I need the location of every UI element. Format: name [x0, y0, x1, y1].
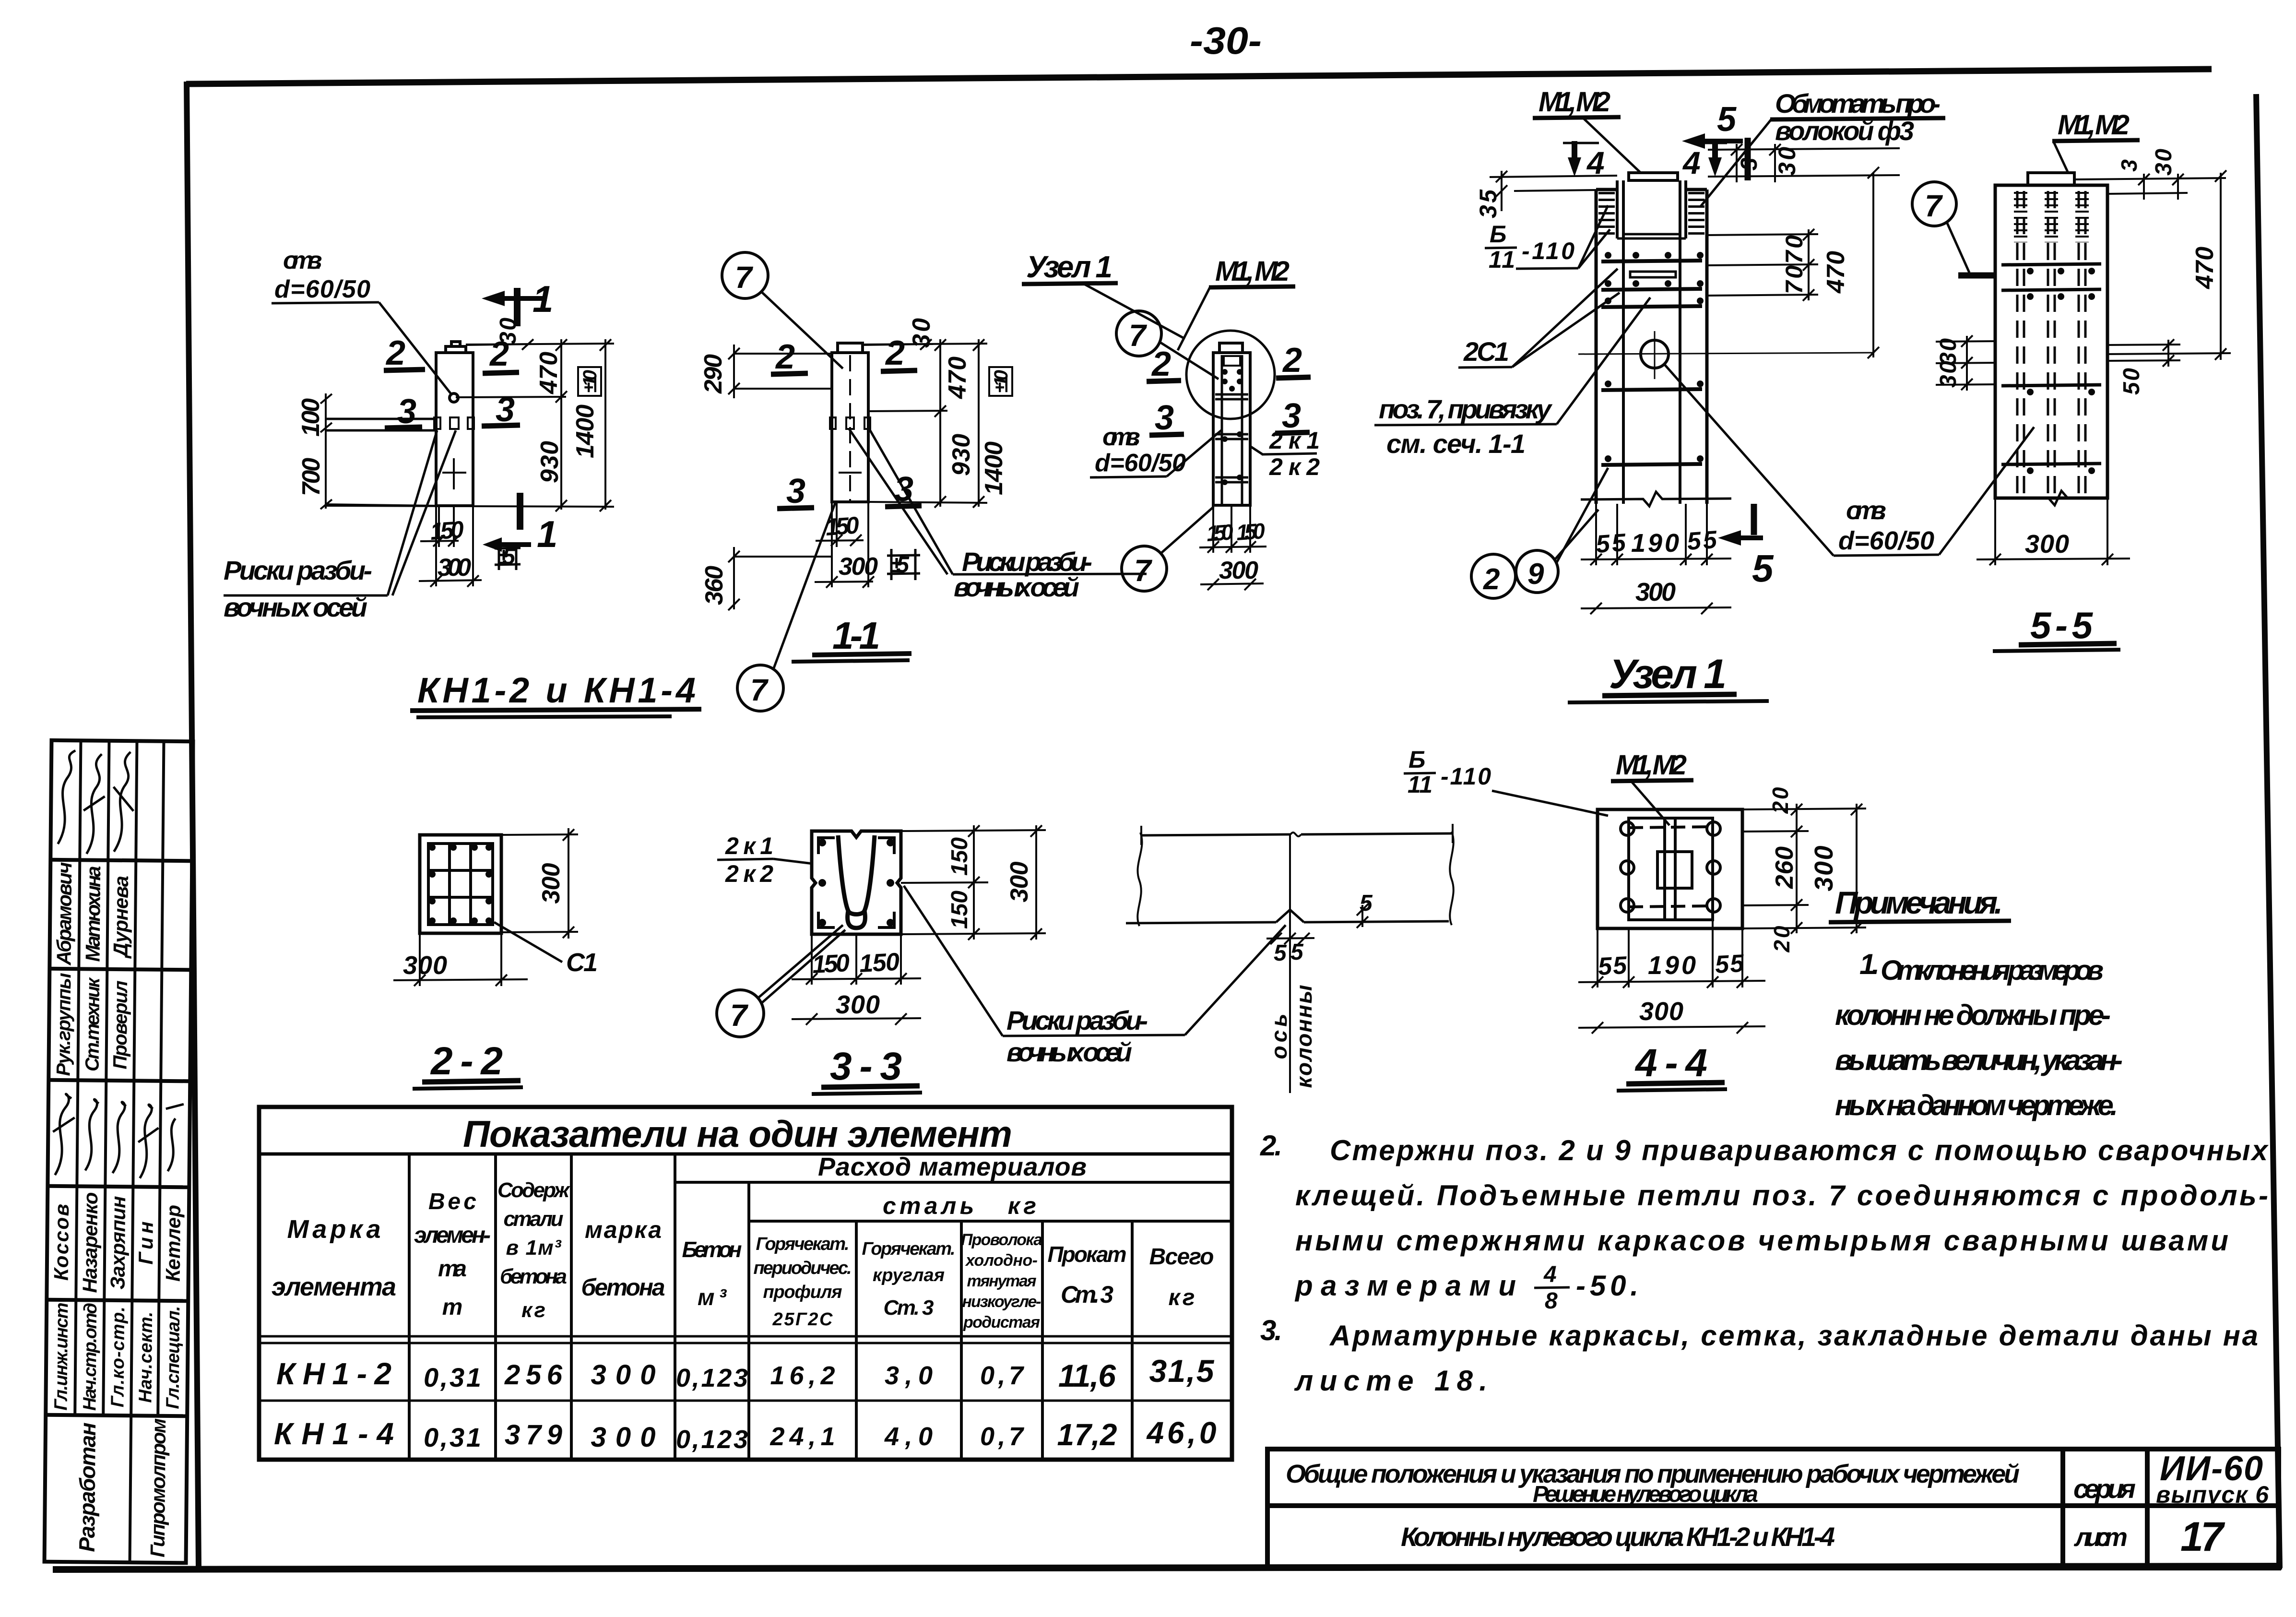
label C1 leader	[494, 922, 598, 977]
section label 2 left (1-1)	[771, 338, 808, 376]
label 2С1 leader	[1458, 269, 1620, 368]
svg-text:Абрамович: Абрамович	[52, 862, 76, 965]
svg-text:55: 55	[1595, 529, 1627, 559]
svg-text:Вес: Вес	[428, 1189, 476, 1214]
dim chain right 470 930 (1-1)	[868, 339, 975, 508]
leader Риски разбивочных осей (1-1)	[849, 429, 1147, 602]
svg-text:7: 7	[1925, 189, 1943, 223]
svg-text:Нач.сект.: Нач.сект.	[135, 1311, 156, 1403]
dim chain 70 70 right	[1707, 229, 1818, 301]
dim 470 (5-5)	[2107, 170, 2231, 360]
dim chain 20 260 20 right (4-4)	[1742, 787, 1866, 952]
svg-text:поз. 7, привязку: поз. 7, привязку	[1379, 394, 1553, 424]
svg-text:профиля: профиля	[763, 1282, 842, 1302]
sheet border frame top	[186, 69, 2212, 84]
svg-text:20: 20	[1769, 926, 1794, 952]
svg-text:2: 2	[775, 338, 795, 376]
svg-text:т: т	[442, 1295, 463, 1320]
square outline 3-3	[812, 831, 901, 934]
svg-text:4-4: 4-4	[1634, 1041, 1707, 1085]
dim 150 bottom (1-1)	[816, 502, 864, 547]
label поз.7 привязку см.сеч.1-1	[1374, 297, 1650, 459]
data row КН1-2	[276, 1353, 1215, 1393]
svg-text:Горячекат.: Горячекат.	[862, 1239, 956, 1259]
page number -30-	[1190, 19, 1262, 62]
svg-text:2: 2	[1483, 563, 1500, 596]
svg-text:3: 3	[1737, 157, 1762, 170]
signature Кетлер	[166, 1104, 184, 1171]
centerline cross below	[453, 458, 455, 489]
section label 2 left	[384, 334, 425, 372]
svg-text:Бетон: Бетон	[682, 1237, 742, 1262]
dim chain right 470 930	[535, 339, 567, 511]
dim 150 bottom	[420, 506, 465, 547]
dim 5 5 under notch	[1266, 933, 1314, 966]
svg-text:35: 35	[1475, 189, 1502, 218]
section label 2 right (fig C)	[1276, 341, 1311, 380]
svg-text:стали: стали	[504, 1207, 564, 1231]
svg-text:1.: 1.	[1859, 948, 1880, 980]
svg-text:ось: ось	[1266, 1014, 1291, 1059]
section mark 1 top	[482, 278, 553, 326]
svg-text:260: 260	[1771, 846, 1799, 889]
signature Дурнева	[113, 752, 134, 852]
svg-text:17,2: 17,2	[1057, 1417, 1117, 1452]
svg-text:379: 379	[505, 1419, 562, 1451]
svg-text:11: 11	[1489, 246, 1515, 273]
svg-text:3,0: 3,0	[885, 1361, 933, 1390]
svg-text:2к1: 2к1	[725, 832, 773, 859]
svg-text:клещей. Подъемные петли поз. 7: клещей. Подъемные петли поз. 7 соединяют…	[1295, 1179, 2268, 1212]
callout circles 2 and 9	[1471, 468, 1608, 598]
svg-text:0,7: 0,7	[980, 1361, 1025, 1390]
svg-text:вышать величин, указан-: вышать величин, указан-	[1835, 1044, 2123, 1076]
svg-text:300: 300	[1219, 557, 1258, 584]
svg-text:С1: С1	[566, 948, 598, 977]
svg-text:50: 50	[2119, 368, 2144, 395]
svg-text:Гл.инж.инст: Гл.инж.инст	[51, 1302, 72, 1410]
label б/11 -110 (4-4)	[1404, 746, 1608, 816]
svg-text:Б: Б	[1490, 221, 1506, 248]
svg-text:Отклонения размеров: Отклонения размеров	[1881, 955, 2104, 986]
note 1	[1835, 948, 2123, 1121]
column body (fig C)	[1213, 343, 1250, 505]
dim 55 190 55 bottom (4-4)	[1578, 920, 1765, 988]
svg-text:низкоугле-: низкоугле-	[962, 1293, 1041, 1311]
dim 300 bottom (fig C)	[1200, 557, 1264, 590]
svg-text:размерами: размерами	[1294, 1270, 1516, 1302]
horizontal ref line at hole level	[456, 397, 566, 397]
svg-text:300: 300	[537, 863, 565, 904]
svg-text:±10: ±10	[580, 370, 601, 393]
strip row lines	[50, 860, 192, 861]
svg-text:470: 470	[944, 357, 971, 399]
svg-text:190: 190	[1631, 529, 1679, 558]
svg-text:отв.: отв.	[283, 247, 322, 274]
heading Примечания	[1829, 885, 2011, 922]
svg-text:2к2: 2к2	[1269, 453, 1320, 480]
dim 5 right of notch	[1357, 891, 1373, 928]
svg-text:290: 290	[699, 354, 727, 394]
svg-text:-50.: -50.	[1576, 1270, 1638, 1302]
svg-text:0,31: 0,31	[424, 1422, 481, 1452]
leader отв d=60/50 (fig C)	[1090, 423, 1222, 477]
svg-text:150: 150	[1206, 519, 1234, 546]
svg-text:2: 2	[385, 334, 405, 372]
svg-text:5: 5	[1360, 891, 1373, 916]
svg-text:1-1: 1-1	[832, 614, 880, 657]
svg-text:лист: лист	[2073, 1523, 2128, 1552]
svg-text:360: 360	[700, 566, 728, 605]
svg-text:КН1-2: КН1-2	[276, 1356, 391, 1391]
dim 300 (fig D)	[1581, 578, 1731, 614]
tolerance box pm5 (1-1)	[887, 549, 920, 580]
plate outline 4-4	[1598, 809, 1742, 928]
label отв d=60/50 (fig D-E shared)	[1665, 365, 2034, 556]
svg-text:256: 256	[504, 1359, 563, 1391]
svg-text:Б: Б	[1408, 746, 1425, 773]
svg-text:7: 7	[750, 673, 769, 707]
pos 7 circle (fig C top)	[1116, 311, 1219, 379]
dim chain left 290 360 (1-1)	[699, 345, 832, 610]
svg-text:Гипромолпром: Гипромолпром	[146, 1418, 170, 1558]
svg-text:Расход материалов: Расход материалов	[818, 1153, 1087, 1181]
dim chain left 100 700	[297, 393, 436, 509]
dim 300 bottom	[419, 506, 482, 587]
corner bars (3-3)	[818, 838, 894, 927]
section label 2 left (fig C)	[1147, 345, 1181, 383]
axis mark notch center	[450, 417, 459, 429]
svg-text:Всего: Всего	[1149, 1244, 1214, 1270]
svg-text:5: 5	[1274, 940, 1287, 966]
svg-text:300: 300	[839, 553, 878, 581]
fig D hole circle	[1578, 331, 1873, 379]
svg-text:колонн не должны пре-: колонн не должны пре-	[1835, 999, 2111, 1031]
heading Узел 1 leader	[1022, 250, 1185, 339]
svg-text:4,0: 4,0	[884, 1422, 933, 1451]
svg-text:300: 300	[836, 990, 880, 1019]
strip outer box	[45, 740, 193, 1563]
dim 300 right (3-3)	[1006, 825, 1042, 940]
dim 35 left with ref lines	[1475, 171, 1617, 218]
svg-text:Колонны нулевого цикла КН1-2 и: Колонны нулевого цикла КН1-2 и КН1-4	[1401, 1522, 1835, 1552]
svg-text:ными стержнями каркасов четырь: ными стержнями каркасов четырьмя сварным…	[1295, 1225, 2228, 1257]
svg-text:4: 4	[1682, 145, 1701, 180]
title block outer	[1267, 1449, 2279, 1568]
svg-text:холодно-: холодно-	[965, 1251, 1038, 1270]
axis centerline	[1289, 834, 1291, 1093]
svg-text:20: 20	[1768, 787, 1793, 814]
svg-text:0,123: 0,123	[676, 1425, 748, 1454]
svg-text:30: 30	[2151, 149, 2177, 176]
figure label КН1-2 и КН1-4	[410, 670, 701, 717]
dim chain right 1400 pm10 (1-1)	[863, 339, 1012, 508]
svg-text:d=60/50: d=60/50	[274, 275, 370, 303]
svg-text:17: 17	[2180, 1514, 2225, 1560]
svg-text:Решение нулевого цикла: Решение нулевого цикла	[1533, 1482, 1758, 1507]
svg-text:930: 930	[536, 441, 564, 483]
svg-text:Содерж: Содерж	[497, 1178, 571, 1202]
svg-text:2: 2	[1151, 345, 1171, 383]
dim 3 30 top right (5-5)	[2074, 149, 2226, 200]
svg-text:отв.: отв.	[1102, 423, 1140, 451]
svg-text:Марка: Марка	[287, 1215, 381, 1244]
svg-text:Стержни поз. 2 и 9 приваривают: Стержни поз. 2 и 9 привариваются с помощ…	[1330, 1134, 2269, 1166]
dim 300 bottom (4-4)	[1578, 997, 1765, 1034]
table double line under header	[259, 1336, 1232, 1343]
fig D wire-wrap comb right	[1688, 192, 1704, 238]
svg-text:Горячекат.: Горячекат.	[756, 1234, 850, 1254]
svg-text:2к2: 2к2	[725, 860, 773, 887]
svg-text:КН1-4: КН1-4	[274, 1416, 394, 1451]
column top cap	[446, 346, 466, 353]
svg-text:элемента: элемента	[272, 1272, 396, 1301]
tolerance box pm5	[495, 543, 521, 570]
svg-text:см. сеч. 1-1: см. сеч. 1-1	[1386, 428, 1526, 459]
fig D plate 2C1	[1630, 272, 1676, 277]
svg-text:2.: 2.	[1260, 1130, 1282, 1162]
svg-text:55: 55	[1598, 951, 1628, 981]
fig D column outer shell	[1596, 190, 1707, 504]
dim 30 top (1-1)	[863, 318, 935, 350]
svg-text:300: 300	[1810, 846, 1838, 892]
section label 2 right	[483, 335, 519, 373]
dim 30 top	[466, 318, 533, 350]
svg-text:марка: марка	[585, 1216, 662, 1243]
svg-text:24,1: 24,1	[770, 1422, 835, 1451]
svg-text:Разработан: Разработан	[74, 1422, 100, 1552]
rebar dashed pairs (5-5)	[2017, 191, 2085, 494]
svg-text:2: 2	[1282, 341, 1302, 380]
svg-text:3: 3	[2117, 159, 2142, 172]
svg-text:150: 150	[825, 511, 860, 541]
svg-text:30: 30	[1774, 147, 1800, 176]
svg-text:бетона: бетона	[500, 1265, 567, 1288]
svg-text:70: 70	[1781, 235, 1808, 264]
left break squiggle	[1137, 832, 1142, 926]
dim 150 150 bottom (3-3)	[792, 934, 921, 985]
dim 30 30 left (5-5)	[1936, 335, 1997, 391]
dim 300 right (4-4)	[1810, 804, 1862, 934]
svg-text:Коссов: Коссов	[50, 1204, 73, 1281]
dim 300 right (2-2)	[501, 828, 578, 939]
svg-text:М1, М2: М1, М2	[1616, 749, 1687, 781]
svg-text:кг: кг	[521, 1298, 545, 1322]
label М1 М2 (fig C)	[1178, 256, 1295, 350]
svg-text:Захряпин: Захряпин	[106, 1196, 130, 1289]
label М1 М2 (fig D)	[1533, 86, 1641, 173]
svg-text:2: 2	[885, 334, 905, 372]
section mark 5 bottom	[1718, 504, 1774, 590]
svg-text:Риски разби-: Риски разби-	[1006, 1005, 1148, 1035]
svg-text:7: 7	[1129, 318, 1148, 353]
svg-text:1: 1	[533, 278, 553, 320]
top line with break	[1141, 824, 1453, 845]
svg-text:Назаренко: Назаренко	[78, 1192, 102, 1293]
svg-text:Узел 1: Узел 1	[1609, 651, 1727, 697]
svg-text:5: 5	[1752, 547, 1774, 590]
svg-text:Проверил: Проверил	[109, 980, 131, 1069]
section label 3 right	[482, 391, 520, 429]
svg-text:родистая: родистая	[963, 1313, 1040, 1332]
detail circle Узел 1	[1186, 331, 1275, 419]
dim 150 150 bottom (fig C)	[1199, 505, 1266, 553]
svg-text:150: 150	[859, 948, 900, 978]
figure label 3-3	[812, 1045, 922, 1094]
svg-text:300: 300	[591, 1359, 656, 1391]
svg-text:31,5: 31,5	[1149, 1353, 1215, 1389]
label 2к1/2к2 fraction	[1250, 427, 1320, 480]
svg-text:300: 300	[403, 951, 447, 980]
pos 7 circle bottom	[737, 503, 835, 711]
fig D slot bottom	[1617, 234, 1686, 238]
dim 3 30 top right	[1708, 144, 1900, 182]
section label 3 left (1-1)	[777, 472, 814, 511]
svg-text:3.: 3.	[1260, 1314, 1282, 1346]
svg-text:1: 1	[537, 513, 557, 555]
svg-text:выпуск 6: выпуск 6	[2156, 1481, 2269, 1508]
svg-text:серия: серия	[2073, 1474, 2136, 1504]
svg-text:300: 300	[1006, 861, 1033, 902]
svg-text:отв.: отв.	[1846, 496, 1886, 525]
svg-text:Проволока: Проволока	[961, 1231, 1042, 1249]
bottom break (5-5)	[1995, 491, 2107, 505]
section label 3 right (1-1)	[885, 470, 922, 509]
axis mark notch right	[468, 417, 474, 429]
section mark 4 left	[1563, 141, 1605, 180]
svg-text:70: 70	[1781, 265, 1808, 294]
dim 470 right (fig D)	[1822, 167, 1879, 358]
svg-text:М1, М2: М1, М2	[2058, 109, 2130, 141]
wire comb strips (5-5)	[2021, 192, 2082, 242]
pos 7 circle (fig C bottom)	[1122, 507, 1214, 591]
svg-text:300: 300	[591, 1422, 656, 1453]
dim 50 right (5-5)	[2107, 339, 2180, 395]
inner section 4-4	[1629, 818, 1713, 920]
svg-text:Ст.техник: Ст.техник	[82, 977, 104, 1071]
svg-text:±5: ±5	[890, 552, 910, 578]
svg-text:Обмотать про-: Обмотать про-	[1775, 88, 1941, 119]
fig D top plate М1	[1629, 173, 1678, 180]
svg-text:5: 5	[1290, 939, 1304, 965]
axis mark notch left	[434, 417, 440, 429]
svg-text:Показатели на один элемент: Показатели на один элемент	[463, 1113, 1012, 1155]
signature Назаренко	[85, 1099, 99, 1171]
svg-text:7: 7	[730, 998, 749, 1033]
svg-text:М1, М2: М1, М2	[1539, 86, 1610, 118]
section mark 5 top	[1682, 100, 1748, 180]
svg-text:470: 470	[535, 352, 563, 394]
dim 150 150 right (3-3)	[901, 825, 1046, 940]
anchor bumps (4-4)	[1621, 822, 1720, 912]
section label 3 right (fig C)	[1275, 397, 1310, 435]
svg-text:5: 5	[1717, 100, 1737, 139]
svg-text:3: 3	[786, 472, 805, 511]
svg-text:300: 300	[1639, 997, 1683, 1026]
column КН1 body outline	[434, 342, 474, 506]
svg-text:-110: -110	[1522, 238, 1574, 264]
dim 300 bottom (1-1)	[815, 502, 878, 588]
figure label 1-1	[792, 614, 911, 662]
note 2	[1260, 1130, 2269, 1314]
svg-text:Гин: Гин	[134, 1221, 157, 1264]
svg-text:та: та	[438, 1256, 467, 1282]
lifting loop (3-3)	[838, 835, 875, 915]
svg-text:8: 8	[1545, 1288, 1558, 1314]
svg-text:Кетлер: Кетлер	[162, 1205, 185, 1282]
svg-text:30: 30	[1936, 361, 1961, 388]
svg-text:2С1: 2С1	[1463, 336, 1509, 367]
pos 7 circle (5-5)	[1912, 182, 1996, 275]
svg-text:7: 7	[735, 260, 754, 295]
svg-text:300: 300	[1635, 578, 1676, 606]
fig D bottom break line	[1581, 492, 1731, 506]
svg-text:190: 190	[1648, 951, 1696, 980]
svg-text:±5: ±5	[497, 544, 516, 570]
section mark 4 right	[1682, 141, 1727, 180]
bottom line with notch	[1126, 910, 1449, 923]
svg-text:55: 55	[1686, 526, 1718, 556]
figure label 2-2	[413, 1039, 523, 1089]
table title row line	[259, 1153, 1232, 1156]
svg-text:-30-: -30-	[1190, 19, 1262, 62]
svg-text:11: 11	[1408, 771, 1432, 798]
note 3	[1260, 1314, 2258, 1397]
pos 7 circle (3-3)	[717, 925, 845, 1037]
left signature title strip (rotated table)	[45, 740, 193, 1563]
svg-text:Риски разби-: Риски разби-	[224, 555, 372, 585]
signature Гин	[138, 1105, 159, 1178]
strip column lines	[75, 740, 81, 1415]
data row КН1-4	[274, 1415, 1217, 1454]
svg-text:150: 150	[1235, 518, 1266, 545]
svg-text:11,6: 11,6	[1058, 1358, 1116, 1393]
svg-text:КН1-2 и КН1-4: КН1-2 и КН1-4	[417, 670, 696, 710]
svg-text:ных на данном чертеже.: ных на данном чертеже.	[1835, 1089, 2118, 1121]
svg-text:150: 150	[947, 891, 972, 929]
svg-text:150: 150	[429, 516, 465, 545]
figure label 5-5	[1993, 604, 2120, 651]
sheet border frame bottom	[53, 1566, 2282, 1569]
dim 55 190 55 (fig D)	[1581, 504, 1731, 565]
signature Матюхина	[83, 754, 105, 854]
signature Абрамович	[58, 750, 76, 844]
svg-text:9: 9	[1527, 558, 1544, 591]
section label 3 left (fig C)	[1149, 399, 1184, 437]
svg-text:930: 930	[947, 434, 975, 476]
leader text отв. d=60/50	[272, 247, 451, 394]
signature Коссов	[53, 1094, 75, 1175]
svg-text:круглая: круглая	[873, 1265, 945, 1285]
dim 300 bottom (2-2)	[393, 933, 528, 986]
svg-text:Гл.специал.: Гл.специал.	[163, 1306, 184, 1409]
svg-text:7: 7	[1134, 553, 1153, 588]
svg-text:300: 300	[438, 554, 471, 582]
svg-text:Ст. 3: Ст. 3	[1061, 1281, 1113, 1308]
risky axis double lines left	[326, 419, 436, 430]
square outline 2-2	[420, 835, 501, 933]
svg-text:1400: 1400	[980, 441, 1008, 495]
svg-text:листе 18.: листе 18.	[1294, 1365, 1487, 1397]
svg-text:Гл.ко-стр.: Гл.ко-стр.	[107, 1307, 129, 1407]
signature Захряпин	[113, 1102, 126, 1173]
hole circle d=60/50	[450, 393, 458, 402]
svg-text:Прокат: Прокат	[1048, 1242, 1127, 1267]
svg-text:сталь кг: сталь кг	[883, 1192, 1036, 1219]
table header sub lines	[675, 1182, 1232, 1221]
svg-text:элемен-: элемен-	[414, 1223, 491, 1248]
svg-text:2-2: 2-2	[430, 1039, 503, 1083]
